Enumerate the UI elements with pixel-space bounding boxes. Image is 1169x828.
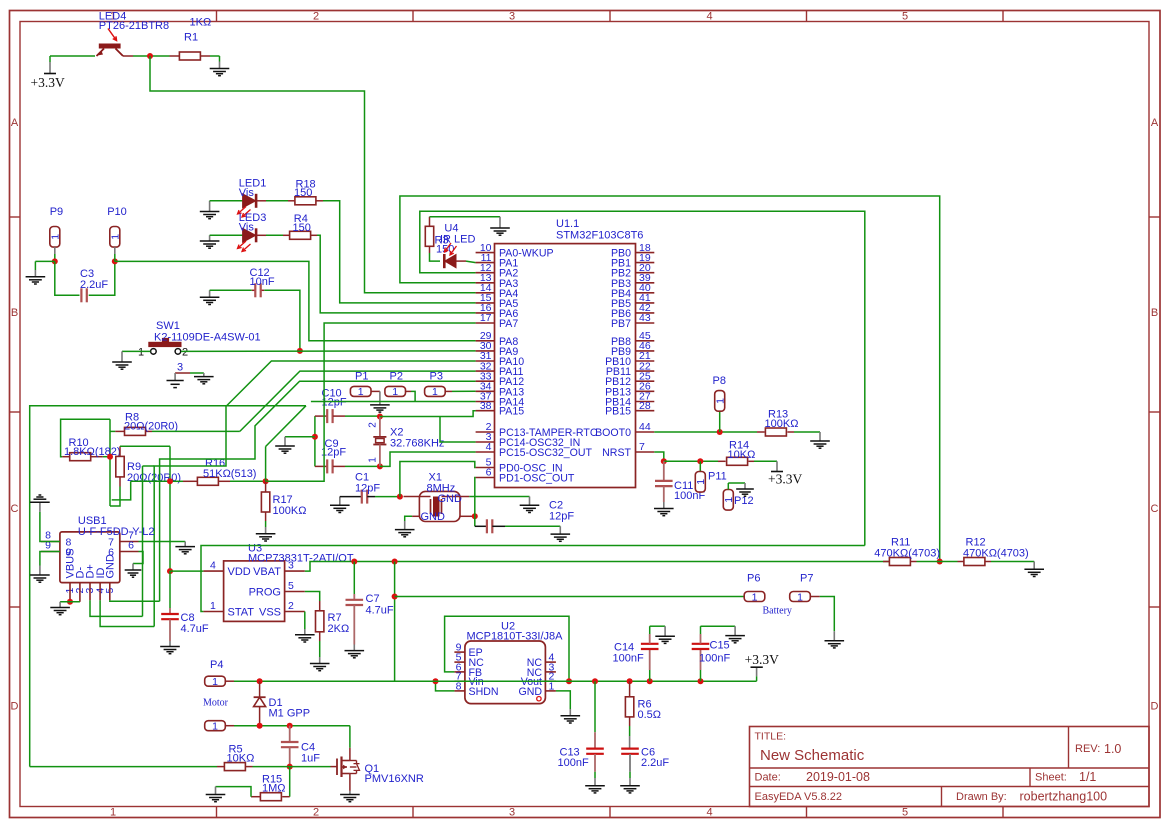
resistor R4 [290, 231, 311, 239]
wire P9 pin to junction [54, 247, 56, 254]
svg-text:GND: GND [438, 493, 463, 505]
ground at C8 [160, 646, 180, 648]
junction dot C13 tap [592, 678, 598, 684]
resistor R6 [629, 681, 631, 697]
svg-text:P7: P7 [800, 573, 813, 585]
wire MCU NRST to R14 row [654, 452, 664, 461]
svg-text:PT26-21BTR8: PT26-21BTR8 [99, 20, 169, 32]
capacitor C10 [315, 415, 327, 417]
junction dot LED4 net [147, 53, 153, 59]
wire LED U4 to MCU PA1 [456, 260, 466, 262]
IC U3 body [224, 561, 285, 622]
svg-text:R1: R1 [184, 32, 198, 44]
svg-text:5: 5 [288, 580, 294, 592]
USB1 pin 3 stub [89, 583, 91, 601]
wire R3 top to ground [430, 216, 501, 218]
header P5 (second motor pin) [205, 721, 226, 731]
ground at X1 right [520, 504, 540, 506]
svg-text:1: 1 [432, 386, 438, 398]
svg-text:150: 150 [293, 222, 311, 234]
U1 pin 7 NRST [636, 451, 655, 453]
junction dot X2 pin2 [377, 414, 383, 420]
ground at R1 [210, 68, 230, 70]
wire C3 to P10 [89, 261, 115, 295]
svg-text:NRST: NRST [602, 447, 631, 459]
ground at C1 [339, 497, 341, 506]
svg-text:1: 1 [797, 591, 803, 603]
svg-text:+3.3V: +3.3V [768, 472, 802, 487]
svg-text:2: 2 [288, 600, 294, 612]
wire USB pin3 D+ down [90, 600, 143, 616]
svg-text:PB15: PB15 [605, 406, 631, 418]
resistor R16 [174, 480, 183, 482]
svg-text:4.7uF: 4.7uF [366, 605, 394, 617]
svg-text:P9: P9 [50, 206, 63, 218]
capacitor C6 [621, 747, 639, 749]
svg-text:4: 4 [706, 11, 712, 23]
svg-text:STM32F103C8T6: STM32F103C8T6 [556, 230, 643, 242]
wire PA14 net row [311, 401, 476, 403]
ground at P9 [26, 276, 46, 278]
svg-text:C: C [11, 503, 19, 515]
wire LED4 collector to junction [123, 55, 133, 57]
svg-text:C7: C7 [366, 593, 380, 605]
wire SW1 pin3 bracket [175, 372, 190, 374]
wire R15 to ground [216, 787, 252, 797]
U1 pin 26 PB13 [636, 390, 655, 392]
wire R3 to LED U4 [430, 253, 441, 261]
wire ground to C12 [210, 289, 252, 291]
IC U2 body [465, 641, 546, 704]
wire U2 GND to ground [556, 691, 570, 709]
wire R10 left loop [61, 419, 110, 457]
ground at USB pin8 (inverted) [30, 501, 50, 503]
svg-text:12pF: 12pF [322, 396, 347, 408]
resistor R11 [883, 561, 889, 563]
junction dot P9 net [52, 258, 58, 264]
svg-text:PA15: PA15 [499, 406, 524, 418]
svg-text:Battery: Battery [763, 606, 792, 617]
svg-text:100KΩ: 100KΩ [765, 418, 799, 430]
header P9 [50, 227, 60, 248]
svg-text:Date:: Date: [755, 772, 781, 784]
svg-text:MCP73831T-2ATI/OT: MCP73831T-2ATI/OT [248, 553, 354, 565]
svg-text:100nF: 100nF [699, 653, 730, 665]
ground at USB pin7 [175, 546, 195, 548]
U1 pin 13 PA3 [476, 282, 495, 284]
svg-text:BOOT0: BOOT0 [595, 427, 631, 439]
U1 pin 38 PA15 [476, 410, 495, 412]
crystal X1 body [419, 491, 460, 521]
capacitor C3 [80, 288, 82, 302]
svg-text:1: 1 [368, 457, 379, 463]
capacitor C9 [315, 465, 327, 467]
U2 pin 4 NC [545, 661, 556, 663]
svg-text:SW1: SW1 [156, 320, 180, 332]
wire to P6 [395, 596, 745, 598]
U1 pin 20 PB2 [636, 272, 655, 274]
svg-text:PC15-OSC32_OUT: PC15-OSC32_OUT [499, 447, 593, 459]
junction dot X2 pin1 [377, 463, 383, 469]
border row ticks left [10, 216, 21, 218]
capacitor C4 [289, 726, 291, 742]
wire X1 bottom-right pin [460, 515, 473, 517]
capacitor C8 [169, 571, 171, 608]
ground at SW1 pin1 [112, 361, 132, 363]
junction dot P10 net [112, 258, 118, 264]
wire X2 pin2 to MCU PC14 and PA15 [380, 411, 476, 417]
IC U1.1 STM32F103C8T6 body [495, 244, 636, 488]
svg-text:100KΩ: 100KΩ [273, 505, 307, 517]
junction dot U2 Vin [433, 678, 439, 684]
junction dot C14 tap [647, 678, 653, 684]
LED U4 (pointing left) [443, 254, 446, 268]
svg-text:P11: P11 [708, 471, 727, 483]
svg-text:1: 1 [714, 398, 726, 404]
header P3 [425, 386, 446, 396]
wire USB pins 1-2 to ground [60, 601, 80, 603]
wire P3 to MCU PA13 [445, 390, 452, 392]
svg-text:MCP1810T-33I/J8A: MCP1810T-33I/J8A [467, 631, 564, 643]
wire C10 C9 left rail [314, 416, 316, 466]
resistor R15 [282, 796, 290, 798]
svg-text:150: 150 [294, 187, 312, 199]
junction dot R16 left [167, 478, 173, 484]
svg-text:M1 GPP: M1 GPP [269, 708, 311, 720]
svg-text:1: 1 [358, 386, 364, 398]
wire P8 stem [719, 411, 721, 432]
svg-text:1: 1 [49, 234, 61, 240]
USB1 pin 2 stub [79, 583, 81, 602]
junction dot P6 tap [392, 594, 398, 600]
border row ticks right [1149, 216, 1160, 218]
capacitor C14 [649, 670, 651, 681]
U1 pin 42 PB6 [636, 312, 655, 314]
U1 pin 17 PA7 [476, 322, 495, 324]
title block frame [750, 727, 1150, 807]
junction dot C4 top [287, 723, 293, 729]
crystal X2 [379, 417, 381, 437]
phototransistor LED4 [99, 44, 121, 49]
header P7 [790, 592, 811, 602]
svg-text:P8: P8 [713, 375, 726, 387]
USB1 pin 5 stub [109, 583, 111, 601]
svg-text:470KΩ(4703): 470KΩ(4703) [963, 548, 1029, 560]
svg-text:1: 1 [110, 807, 116, 819]
wire C2 to ground [559, 526, 561, 534]
junction dot X1 C2 [472, 513, 478, 519]
resistor R13 [757, 431, 765, 433]
wire P10 net to MCU PA8 [115, 261, 476, 340]
capacitor C15 [700, 670, 702, 681]
resistor R18 [295, 197, 316, 205]
wire R8 left vertical [109, 419, 111, 506]
U1 pin 19 PB1 [636, 262, 655, 264]
U1 pin 34 PA13 [476, 390, 495, 392]
U2 pin 6 FB [454, 671, 465, 673]
svg-text:B: B [11, 307, 18, 319]
resistor R14 [718, 460, 726, 462]
svg-text:A: A [11, 117, 19, 129]
svg-text:C: C [1151, 503, 1159, 515]
svg-text:Drawn By:: Drawn By: [956, 791, 1007, 803]
svg-text:1: 1 [212, 721, 218, 733]
wire P12 to ground [727, 483, 729, 490]
svg-text:2019-01-08: 2019-01-08 [806, 770, 870, 784]
wire SW1 pin2 to MCU PA9 [181, 350, 476, 353]
svg-text:TITLE:: TITLE: [755, 731, 787, 743]
wire P10 pin stem [114, 247, 116, 254]
svg-text:EasyEDA V5.8.22: EasyEDA V5.8.22 [755, 791, 842, 803]
svg-text:Vis: Vis [239, 187, 255, 199]
U2 pin 7 Vin [454, 680, 465, 682]
power flag +3.3V (NRST pullup) [776, 461, 778, 471]
U1 pin 31 PA10 [476, 360, 495, 362]
capacitor C2 [475, 525, 486, 527]
svg-text:1: 1 [695, 479, 707, 485]
svg-text:7: 7 [639, 441, 645, 453]
U1 pin 11 PA1 [476, 262, 495, 264]
svg-text:REV:: REV: [1075, 743, 1100, 755]
U2 pin 3 NC [545, 671, 556, 673]
header P8 [715, 391, 725, 412]
svg-text:6: 6 [128, 540, 134, 552]
svg-text:1/1: 1/1 [1079, 770, 1096, 784]
wire MCU PD1 to C2 [474, 478, 477, 527]
svg-text:28: 28 [639, 400, 651, 412]
ground at C15 [725, 635, 745, 637]
junction dot P8 tap [717, 429, 723, 435]
ground at C13 [585, 785, 605, 787]
wire junction to ground [285, 436, 315, 438]
wire rail A PA2 to U3 STAT [201, 546, 865, 612]
U1 pin 44 BOOT0 [636, 431, 655, 433]
wire battery rail to U2 Vin [394, 562, 396, 682]
wire ground to LED3 [210, 234, 243, 236]
svg-text:D: D [1151, 701, 1159, 713]
svg-text:0.5Ω: 0.5Ω [638, 709, 662, 721]
svg-text:P6: P6 [747, 573, 760, 585]
svg-text:3: 3 [509, 11, 515, 23]
wire riser x170 [169, 446, 171, 571]
svg-text:+3.3V: +3.3V [31, 75, 65, 90]
svg-text:38: 38 [480, 400, 492, 412]
capacitor C11 [663, 461, 665, 480]
wire USB pin5 GND down [110, 599, 160, 602]
header P11 [699, 461, 701, 471]
junction dot C15 tap [698, 678, 704, 684]
U1 pin 27 PB14 [636, 401, 655, 403]
U3 pin 4 VDD [203, 570, 223, 572]
svg-text:2KΩ: 2KΩ [328, 623, 350, 635]
wire R9 top to riser [120, 445, 170, 447]
wire left rail to R5 [30, 406, 306, 767]
U1 pin 39 PB3 [636, 282, 655, 284]
power flag +3.3V (top left) [49, 56, 51, 62]
junction dot D1 top [257, 678, 263, 684]
resistor R12 [940, 561, 958, 563]
junction dot C10 C9 ground [312, 434, 318, 440]
header P12 [723, 490, 733, 511]
U1 pin 22 PB11 [636, 370, 655, 372]
svg-text:10KΩ: 10KΩ [227, 753, 255, 765]
ground at P1 [370, 404, 390, 406]
transistor Q1 PMV16XNR [331, 766, 338, 768]
wire P1 to ground [371, 390, 380, 392]
header P2 [385, 386, 406, 396]
wire main motor rail [225, 680, 234, 682]
svg-text:6: 6 [486, 467, 492, 479]
U1 pin 3 PC14-OSC32_IN [476, 441, 495, 443]
ground at C2 [551, 533, 571, 535]
svg-text:2: 2 [313, 11, 319, 23]
svg-text:C15: C15 [710, 640, 730, 652]
USB1 pin 9 [41, 551, 60, 553]
svg-text:GND: GND [421, 511, 446, 523]
U2 pin 5 NC [454, 661, 465, 663]
wire R16 row left extension [112, 481, 131, 500]
junction dot R16 R17 node [263, 478, 269, 484]
svg-text:100nF: 100nF [613, 653, 644, 665]
svg-text:VDD: VDD [228, 566, 251, 578]
U3 pin 1 STAT [203, 611, 223, 613]
junction dot U2 Vout [566, 678, 572, 684]
svg-text:32.768KHz: 32.768KHz [390, 438, 444, 450]
wire U3 VBAT to battery rail [305, 562, 890, 572]
wire X1 right pin to ground [460, 496, 469, 498]
wire R8 right to MCU PA11 [152, 430, 240, 432]
svg-text:U1.1: U1.1 [556, 218, 579, 230]
U1 pin 21 PB10 [636, 360, 655, 362]
U1 pin 29 PA8 [476, 340, 495, 342]
LED LED3 [243, 228, 256, 242]
USB1 pin 4 stub [99, 583, 101, 601]
wire MCU PA10 to USB riser [154, 361, 475, 627]
wire LED4 emitter to +3.3V [50, 55, 95, 57]
wire U3 PROG to R7 [305, 592, 320, 602]
U1 pin 43 PB7 [636, 322, 655, 324]
ground at X1 left [395, 529, 415, 531]
svg-text:4: 4 [210, 560, 216, 572]
svg-text:K2-1109DE-A4SW-01: K2-1109DE-A4SW-01 [154, 331, 261, 343]
svg-text:1: 1 [210, 600, 216, 612]
U1 pin 14 PA4 [476, 292, 495, 294]
U1 pin 25 PB12 [636, 380, 655, 382]
U1 pin 12 PA2 [476, 272, 495, 274]
svg-text:5: 5 [902, 11, 908, 23]
svg-text:VSS: VSS [259, 607, 281, 619]
wire MCU PA2 loop to rail [420, 211, 865, 545]
resistor R1 [179, 52, 200, 60]
capacitor C13 [594, 681, 596, 732]
U1 pin 28 PB15 [636, 410, 655, 412]
U1 pin 33 PA12 [476, 380, 495, 382]
U3 pin 2 VSS [285, 611, 305, 613]
border column ticks top [216, 11, 218, 22]
svg-text:New Schematic: New Schematic [760, 747, 865, 764]
wire LED4 net to MCU PA4 [150, 56, 476, 293]
svg-text:1: 1 [109, 234, 121, 240]
header P10 [110, 227, 120, 248]
wire U2 SHDN to Vin [436, 681, 455, 691]
ground at U2 [561, 715, 581, 717]
wire NRST row [664, 460, 718, 462]
junction dot C11 tap [661, 458, 667, 464]
U1 pin 41 PB5 [636, 302, 655, 304]
resistor R10 [62, 456, 70, 458]
wire VDD node to U3 [170, 570, 203, 572]
resistor R8 [110, 430, 115, 432]
svg-text:PD1-OSC_OUT: PD1-OSC_OUT [499, 473, 575, 485]
U3 pin 3 VBAT [285, 570, 305, 572]
svg-text:2: 2 [313, 807, 319, 819]
U2 pin 8 SHDN [454, 690, 465, 692]
wire LED3 to R4 [257, 234, 267, 236]
svg-text:D: D [11, 701, 19, 713]
svg-text:2.2uF: 2.2uF [80, 279, 108, 291]
capacitor C1 [340, 496, 362, 498]
svg-text:3: 3 [509, 807, 515, 819]
wire USB pin9 to ground [40, 552, 60, 566]
wire U2 FB to Vout loop [445, 616, 569, 681]
svg-text:+3.3V: +3.3V [745, 652, 779, 667]
resistor R9 [119, 446, 121, 456]
U1 pin 2 PC13-TAMPER-RTC [476, 431, 495, 433]
U2 pin 1 GND [545, 690, 556, 692]
wire USB pin8 to ground [40, 512, 60, 542]
svg-text:3: 3 [288, 560, 294, 572]
U1 pin 6 PD1-OSC_OUT [476, 477, 495, 479]
ground at R15 [206, 794, 226, 796]
USB1 pin 6 [120, 551, 139, 553]
resistor R17 [265, 481, 267, 492]
wire R12 to ground [1033, 562, 1035, 570]
svg-text:1uF: 1uF [301, 753, 320, 765]
ground at USB pin6 [125, 569, 142, 571]
ground at C6 [620, 785, 640, 787]
diode D1 [259, 681, 261, 697]
svg-text:PMV16XNR: PMV16XNR [365, 773, 424, 785]
USB1 pin 7 [120, 541, 139, 543]
wire P9 to C3 [55, 261, 80, 295]
ground at SW1 pin3 right [194, 376, 214, 378]
svg-text:Motor: Motor [203, 698, 229, 709]
svg-text:44: 44 [639, 421, 651, 433]
U1 pin 46 PB9 [636, 350, 655, 352]
ground at C14 [655, 635, 675, 637]
ground at Q1 [340, 794, 360, 796]
ground at P12 [736, 488, 754, 490]
wire MCU PA3 outer loop to R11 R12 junction [400, 196, 940, 562]
U1 pin 18 PB0 [636, 252, 655, 254]
junction dot C4 bottom [287, 764, 293, 770]
wire row to Q1 drain [349, 726, 351, 748]
U1 pin 40 PB4 [636, 292, 655, 294]
svg-text:470KΩ(4703): 470KΩ(4703) [874, 548, 940, 560]
svg-text:43: 43 [639, 312, 651, 324]
svg-text:1.0: 1.0 [1104, 742, 1121, 756]
svg-text:3: 3 [177, 362, 183, 374]
wire R1 to ground [210, 55, 220, 57]
resistor R5 [30, 766, 217, 768]
resistor R7 [319, 601, 321, 611]
wire R13 to ground [819, 432, 821, 441]
svg-text:Sheet:: Sheet: [1035, 772, 1067, 784]
ground at C11 [654, 508, 674, 510]
resistor R3 [429, 217, 431, 227]
svg-text:A: A [1151, 117, 1159, 129]
wire LED1 to R18 [257, 200, 267, 202]
